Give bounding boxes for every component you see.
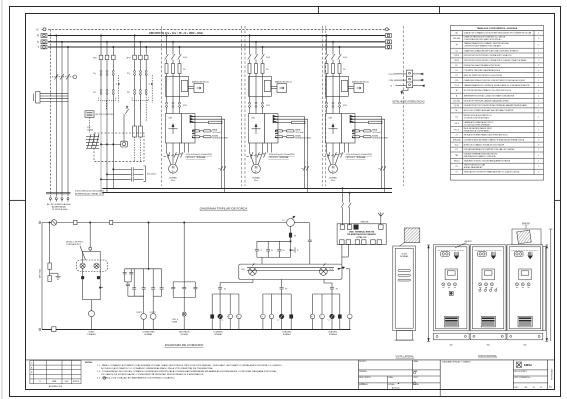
surge box TPS: [85, 111, 94, 118]
svg-text:1: 1: [538, 135, 539, 137]
format strip: [549, 386, 551, 389]
svg-text:DE FASE: DE FASE: [180, 333, 188, 336]
cabinet 3 front: [507, 245, 543, 331]
svg-text:1: 1: [538, 160, 539, 162]
svg-text:NO MODO AUTOMATICO O COMANDO S: NO MODO AUTOMATICO O COMANDO SERA REALIZ…: [101, 367, 213, 370]
table rows text: [453, 32, 540, 174]
svg-text:TM1: TM1: [455, 155, 459, 157]
control left riser: [41, 223, 43, 330]
telemetry drops: [342, 245, 348, 265]
main disconnect Q0: [52, 74, 77, 80]
svg-text:1: 1: [538, 155, 539, 157]
svg-text:CONTATOR AUXILIAR PARA COMANDO: CONTATOR AUXILIAR PARA COMANDO E SINALIZ…: [464, 138, 525, 141]
cabinet 2 extra buttons: [479, 288, 498, 292]
aux group labels: [93, 58, 131, 94]
notes title: [85, 361, 93, 364]
bus N left terminal: [42, 28, 47, 31]
voltmeter switch: [124, 106, 129, 141]
capacitor branch 3: [277, 241, 281, 257]
bus N: [48, 28, 385, 30]
aterro leader: [455, 243, 467, 248]
relay cluster riser: [148, 222, 149, 269]
detail input wires: [394, 74, 406, 86]
shared wall 1: [469, 246, 471, 331]
capacitor tap 1: [113, 167, 144, 171]
PLC feed contact B: [348, 192, 351, 225]
selector box with meter: [100, 141, 127, 147]
svg-text:NOTAS:: NOTAS:: [85, 361, 93, 364]
bus L1 right terminal: [386, 34, 392, 38]
lamp group 3 cap label: [311, 289, 338, 322]
bus L2: [48, 41, 385, 43]
bus L3 right terminal: [386, 45, 392, 49]
svg-text:0: 0: [321, 316, 322, 318]
svg-text:SIN1-3: SIN1-3: [454, 160, 459, 162]
aux contact label: [297, 250, 299, 252]
svg-text:0: 0: [31, 363, 32, 365]
svg-text:FUSIVEL NH 100A COM BASE E PRO: FUSIVEL NH 100A COM BASE E PROTECAO: [464, 64, 501, 67]
field tiny labels: [359, 360, 530, 386]
aux group B drops to resistors: [135, 94, 147, 126]
phase fault label: [173, 319, 179, 323]
motor branch M3: [324, 35, 389, 193]
svg-text:600: 600: [487, 345, 490, 347]
selector riser: [308, 223, 312, 265]
base rail 1: [433, 333, 469, 340]
surge indicator 1: [80, 263, 85, 268]
aux group A long drops: [101, 94, 113, 192]
svg-text:OS CABOS DE INTERLIGACAO COM A: OS CABOS DE INTERLIGACAO COM A REMOTA DE…: [101, 373, 204, 376]
capacitor branch 1: [255, 241, 259, 257]
svg-text:1/1: 1/1: [540, 387, 542, 389]
svg-text:1SS-3SS: 1SS-3SS: [453, 38, 461, 40]
base rail 2: [470, 333, 506, 340]
aterro label: [465, 240, 473, 243]
lamp group 3: [310, 279, 341, 329]
detail title: [393, 100, 425, 103]
svg-text:DIAGRAMA TRIFILAR DE FORCA: DIAGRAMA TRIFILAR DE FORCA: [200, 206, 249, 210]
svg-text:COMANDO: COMANDO: [87, 333, 97, 336]
svg-text:1DJ-3DJ: 1DJ-3DJ: [453, 100, 460, 102]
svg-text:(UTR) CLP: (UTR) CLP: [357, 237, 368, 239]
frontal right dimension A: [545, 245, 548, 342]
svg-text:DISJUNTOR MOTOR COM PROTECAO T: DISJUNTOR MOTOR COM PROTECAO TERMICA E M…: [464, 104, 527, 107]
title block top edge: [25, 359, 555, 361]
svg-text:REMOTA: REMOTA: [522, 222, 530, 225]
potential transformer TP1: [86, 134, 99, 149]
svg-text:1: 1: [538, 75, 539, 77]
frontal right dimension B: [549, 229, 552, 341]
svg-text:3: 3: [538, 70, 539, 72]
svg-text:CONT1: CONT1: [136, 312, 142, 314]
svg-text:LS1-3: LS1-3: [454, 123, 459, 125]
svg-text:PROJETO:: PROJETO:: [359, 361, 367, 363]
wire T tap: [67, 46, 68, 196]
svg-text:L3: L3: [328, 320, 330, 322]
spare lamp: [346, 269, 352, 329]
svg-text:MOTOR DE INDUCAO TRIFASICO 25c: MOTOR DE INDUCAO TRIFASICO 25cv 380VCA I…: [464, 89, 512, 92]
field divider 1: [357, 360, 359, 390]
svg-text:3: 3: [538, 100, 539, 102]
feeder cable label: [47, 191, 104, 207]
telemetry text: [347, 230, 376, 239]
svg-text:1.1 - PARA O COMANDO AUTOMATIC: 1.1 - PARA O COMANDO AUTOMATICO DAS BOMB…: [97, 364, 282, 367]
svg-text:2Q: 2Q: [127, 73, 130, 75]
bus N right terminal: [385, 28, 390, 31]
bus labels: [37, 27, 40, 49]
svg-text:3: 3: [538, 90, 539, 92]
svg-text:TRANSFORMADOR DE CORRENTE 100/: TRANSFORMADOR DE CORRENTE 100/5A CLASSE …: [464, 84, 530, 87]
svg-text:QUADRO DE COMANDO DOS MOTORES: QUADRO DE COMANDO DOS MOTORES 380VCA 60H…: [464, 32, 532, 35]
motor branch M2: [247, 35, 312, 193]
motor branch M1: [164, 35, 229, 193]
svg-text:1FU: 1FU: [93, 58, 98, 60]
svg-text:1: 1: [538, 129, 539, 131]
svg-text:ALTERACOES: ALTERACOES: [49, 385, 63, 388]
control supply breaker: [51, 220, 57, 226]
svg-text:R1: R1: [455, 116, 457, 118]
detail ground hook: [401, 88, 408, 94]
control bus lower: [102, 192, 392, 194]
field divider 3: [439, 360, 441, 397]
svg-text:1: 1: [538, 80, 539, 82]
capacitor bottom bar: [257, 257, 291, 264]
DJ fuse branch: [289, 226, 292, 241]
svg-text:ALETAS PARA FIACAO: ALETAS PARA FIACAO: [464, 166, 483, 169]
aux contact R: [290, 247, 295, 252]
svg-text:COM.: COM.: [389, 80, 394, 82]
svg-text:VENTILADOR COM FILTRO PARA EXA: VENTILADOR COM FILTRO PARA EXAUSTAO DO Q…: [464, 171, 520, 174]
lateral cabinet body: [393, 246, 416, 331]
field divider 4: [512, 360, 514, 390]
selector switch CS2: [320, 263, 328, 275]
revision table headers: [31, 363, 80, 383]
svg-text:1: 1: [538, 55, 539, 57]
control bus upper: [102, 188, 392, 190]
centering tick top left: [317, 7, 319, 14]
surge callout text: [66, 242, 84, 247]
ground: [56, 273, 61, 279]
DJ label: [282, 220, 284, 222]
surge module riser: [89, 222, 92, 250]
svg-text:N: N: [37, 27, 39, 31]
svg-text:CIRCUITO (3) 1Cv + 1Cv = 3F +: CIRCUITO (3) 1Cv + 1Cv = 3F + N + 380V +…: [149, 32, 204, 35]
aux group B contactor contacts: [134, 90, 147, 95]
svg-text:3: 3: [538, 38, 539, 40]
svg-text:3: 3: [538, 149, 539, 151]
capacitor group riser: [290, 241, 292, 257]
svg-text:3: 3: [538, 60, 539, 62]
svg-text:EMETRIA/TELECOMANDO COMPLETA: EMETRIA/TELECOMANDO COMPLETA: [464, 155, 497, 158]
trafo lamp: [88, 300, 94, 330]
capacitor feed bar: [257, 241, 291, 242]
resistor R1: [133, 126, 137, 137]
svg-text:COM BY-PASS INCORPORADO E PROT: COM BY-PASS INCORPORADO E PROTECAO: [464, 38, 502, 41]
field divider 2: [411, 360, 413, 390]
aux group A linkage: [99, 83, 120, 100]
TP1 label: [87, 127, 94, 132]
capacitor tap 3: [100, 177, 143, 181]
svg-text:CONTRA SURTO: CONTRA SURTO: [66, 243, 81, 246]
svg-text:1KM-3KM: 1KM-3KM: [453, 139, 461, 141]
lateral louvers: [398, 270, 411, 281]
svg-text:BOMBA 3: BOMBA 3: [329, 333, 337, 336]
aux group linkage dashes: [119, 75, 153, 103]
svg-text:CONTATOR TRIPOLAR 50A BOBINA 2: CONTATOR TRIPOLAR 50A BOBINA 220VCA: [464, 69, 501, 72]
interconnection detail: [389, 70, 425, 103]
telemetry unit: [337, 224, 386, 245]
svg-text:L2: L2: [278, 320, 280, 322]
bus L3: [48, 46, 385, 48]
remote box label: [522, 222, 530, 229]
parts list table: [451, 25, 544, 180]
aux loop contacts: [123, 269, 144, 296]
alimentacao label: [52, 206, 67, 212]
svg-text:BOMBAS: BOMBAS: [145, 333, 153, 336]
svg-text:VISTA LATERAL: VISTA LATERAL: [396, 355, 415, 358]
selector exit arrow: [338, 267, 345, 270]
centering tick right: [555, 199, 561, 201]
branch 1 header label: [149, 32, 204, 35]
aux group B phase drops: [134, 35, 147, 55]
svg-text:2FU: 2FU: [126, 58, 131, 60]
selector switch CS1: [249, 263, 257, 275]
telemetry label: [361, 220, 370, 223]
lateral view title: [396, 355, 415, 358]
detail output arrows: [413, 73, 425, 87]
svg-text:1: 1: [538, 166, 539, 168]
wire N tap: [49, 29, 51, 196]
lateral cabinet label: [400, 254, 409, 259]
frontal left dimension: [427, 245, 430, 342]
svg-text:C3: C3: [282, 250, 284, 252]
lamp group 1: [211, 279, 253, 329]
field rows left: [358, 370, 440, 390]
svg-text:RELE DE TEMPO ELETRONICO 0-30s: RELE DE TEMPO ELETRONICO 0-30s 220VCA: [464, 74, 503, 77]
control breaker DJ: [287, 216, 295, 226]
svg-text:1Q: 1Q: [93, 73, 96, 75]
logo: [516, 362, 521, 367]
DPS device 2: [48, 273, 58, 281]
svg-text:0: 0: [229, 316, 230, 318]
svg-text:DISPLAY/IHM PARA SOFT-STARTER: DISPLAY/IHM PARA SOFT-STARTER COM CABO D…: [464, 148, 515, 151]
svg-text:COM PROTECAO PRIMARIO E SECUND: COM PROTECAO PRIMARIO E SECUNDARIO: [464, 45, 502, 48]
svg-text:APROV.: APROV.: [73, 380, 80, 383]
svg-text:A.Paulo: A.Paulo: [391, 386, 400, 389]
relay cluster top bar: [125, 268, 162, 269]
wire S tap: [61, 41, 62, 196]
capacitor 3 label: [282, 250, 284, 252]
selector labels: [241, 269, 334, 271]
svg-text:1: 1: [538, 45, 539, 47]
rail terminal L: [39, 222, 41, 224]
cabinet width dims: [450, 345, 527, 347]
surge aux contact 3: [99, 287, 103, 289]
telemetry antenna: [378, 212, 384, 224]
phase fault relay riser: [184, 222, 185, 282]
svg-text:ALIMENTACAO: ALIMENTACAO: [52, 206, 67, 209]
DPS device 1: [48, 263, 51, 276]
svg-text:DISPOSITIVO DE PROTECAO CONTRA: DISPOSITIVO DE PROTECAO CONTRA SURTO 45k…: [464, 54, 513, 57]
svg-text:FT1-3: FT1-3: [454, 129, 459, 131]
aux group A breaker contacts: [100, 71, 114, 90]
incoming feeder terminals: [49, 198, 69, 202]
detail terminal strip: [406, 70, 412, 88]
svg-text:EMSA: EMSA: [524, 363, 532, 367]
note ground symbol: [103, 376, 106, 379]
svg-text:DISPOSITIVO DE PROTECAO CONTRA: DISPOSITIVO DE PROTECAO CONTRA SURTO CLA…: [464, 59, 527, 62]
aux group B linkage: [132, 83, 153, 100]
cabinet 2 front: [470, 245, 506, 331]
incoming plug connector: [34, 92, 69, 104]
remote antenna box: [512, 229, 541, 245]
control bottom rail: [42, 329, 351, 331]
svg-text:FASE: FASE: [173, 320, 178, 323]
svg-text:0: 0: [270, 316, 271, 318]
svg-text:S1-3: S1-3: [455, 144, 459, 146]
wire R tap: [56, 35, 57, 197]
svg-text:L1: L1: [222, 320, 224, 322]
centering tick left: [10, 199, 26, 201]
lineup side wall: [543, 247, 546, 331]
measurement dashed enclosure: [94, 133, 144, 161]
notes text: [97, 364, 282, 379]
capacitor branch 2: [266, 241, 270, 257]
svg-text:1.3 - SIMBOLO DE LIGACAO: 1.3 - SIMBOLO DE LIGACAO AO BARRAMENTO D…: [97, 377, 175, 380]
detail input labels: [389, 74, 395, 88]
svg-text:C1: C1: [260, 250, 262, 252]
feeder bus bar: [46, 192, 71, 194]
DPS branch riser: [49, 222, 50, 263]
svg-text:VISTO:: VISTO:: [413, 377, 418, 379]
svg-text:4x2,5mm2: 4x2,5mm2: [147, 174, 157, 176]
svg-text:DJ: DJ: [282, 220, 284, 222]
surge aux contact 2: [97, 276, 100, 279]
svg-text:ATERRO: ATERRO: [465, 240, 473, 243]
scale row: [515, 387, 543, 389]
svg-text:1: 1: [538, 96, 539, 98]
svg-text:6: 6: [538, 144, 539, 146]
bus L3 left terminal: [41, 45, 47, 49]
logo text: [524, 363, 532, 367]
revision table: [30, 361, 81, 384]
revision table caption: [49, 385, 63, 388]
cabinet 1 front: [433, 245, 469, 331]
svg-text:CHAVE SECCIONADORA TRIPOLAR 12: CHAVE SECCIONADORA TRIPOLAR 125A COM PUN…: [464, 49, 519, 52]
svg-text:SINALEIRO SONORO 220VCA PARA A: SINALEIRO SONORO 220VCA PARA ALARME DE F…: [464, 159, 511, 162]
svg-text:1: 1: [538, 50, 539, 52]
aux group A phase drops: [100, 35, 114, 55]
format strip rotated text: [551, 369, 554, 380]
svg-text:1.2 - TODA A FIACAO DE FORCA E: 1.2 - TODA A FIACAO DE FORCA E COMANDO D…: [97, 370, 277, 373]
svg-text:3: 3: [538, 85, 539, 87]
capacitor 1 label: [260, 250, 262, 252]
drawing number text: [442, 361, 471, 364]
frontal view title: [478, 355, 498, 358]
surge callout: [80, 246, 86, 260]
svg-text:REMOTA: REMOTA: [361, 220, 370, 223]
signature text: [391, 386, 400, 389]
capacitor bracket: [144, 166, 146, 181]
surge box label: [96, 113, 115, 116]
svg-text:9: 9: [538, 123, 539, 125]
PLC feed contact A: [341, 188, 344, 225]
cabinet 1 extra selector: [449, 291, 453, 295]
svg-text:600: 600: [523, 345, 526, 347]
svg-text:W 220VCA COM TERMOSTATO: W 220VCA COM TERMOSTATO: [464, 117, 490, 120]
centering tick top right: [439, 7, 441, 14]
aux group A fuses 1FU: [99, 55, 115, 70]
phase fault lamp: [182, 297, 186, 329]
surge box dashed drop: [89, 117, 91, 133]
svg-text:BL: BL: [456, 110, 458, 112]
svg-text:100VA: 100VA: [87, 129, 94, 132]
svg-text:BOMBA 2: BOMBA 2: [283, 333, 291, 336]
table header text: [477, 27, 518, 30]
svg-text:REGUA DE BORNES PARA CONDUTORE: REGUA DE BORNES PARA CONDUTORES ATE 6mm2: [464, 134, 508, 137]
aux group dashed stubs: [106, 101, 140, 111]
svg-text:ENCIA 380VCA COM RETARDO: ENCIA 380VCA COM RETARDO: [464, 129, 490, 132]
svg-text:S: S: [37, 40, 39, 44]
svg-text:RESP. TECNICO:: RESP. TECNICO:: [359, 377, 371, 379]
DPS rotated label: [39, 269, 42, 278]
svg-text:DPS 70kA: DPS 70kA: [39, 269, 42, 278]
svg-text:3: 3: [538, 105, 539, 107]
svg-text:3: 3: [538, 110, 539, 112]
bus L2 left terminal: [41, 40, 47, 44]
svg-text:CHAVE SELETORA 3 POSICOES COM: CHAVE SELETORA 3 POSICOES COM RETORNO PO…: [464, 79, 526, 82]
lamp group 2 cap label: [262, 289, 288, 322]
bus L1: [48, 35, 385, 37]
paper edge: [1, 0, 3, 399]
svg-text:1: 1: [538, 116, 539, 118]
rail terminal N: [39, 329, 41, 331]
phase fault relay block: [171, 282, 197, 298]
svg-text:3: 3: [538, 65, 539, 67]
aux group B fuses 2FU: [133, 55, 148, 70]
svg-text:TELEMETRIA/TELECOMANDO: TELEMETRIA/TELECOMANDO: [347, 233, 376, 236]
svg-text:ESC.: ESC.: [515, 387, 519, 389]
svg-text:K1: K1: [456, 70, 458, 72]
svg-text:ALIMENTACAO GERAL QCM: ALIMENTACAO GERAL QCM: [75, 193, 104, 196]
surge aux contact 1: [81, 276, 84, 279]
svg-text:DESENHO:: DESENHO:: [359, 371, 367, 373]
lateral hatched gland plate: [400, 228, 420, 246]
svg-text:DISJUNTOR TRIPOLAR CAIXA MOLDA: DISJUNTOR TRIPOLAR CAIXA MOLDADA 63A CUR…: [464, 99, 510, 102]
aux group A contactor contacts: [100, 90, 114, 95]
svg-text:C2: C2: [271, 250, 273, 252]
svg-text:600: 600: [450, 345, 453, 347]
field rows right: [513, 370, 547, 383]
svg-text:TABELA DE COMPONENTES / LEGEND: TABELA DE COMPONENTES / LEGENDA: [477, 27, 518, 30]
svg-text:D1: D1: [455, 149, 457, 151]
resistor R2: [138, 126, 142, 137]
shared wall 2: [506, 246, 508, 331]
svg-text:mm 220VCA CORES DIVERSAS: mm 220VCA CORES DIVERSAS: [464, 123, 491, 126]
svg-text:AL TPS CONTROLE: AL TPS CONTROLE: [96, 113, 115, 116]
lateral base: [395, 331, 415, 341]
contactor lamp branch 2: [150, 269, 163, 329]
svg-text:DES.: DES.: [65, 381, 69, 383]
lamp group 2: [261, 279, 293, 329]
svg-text:BOMBA 1: BOMBA 1: [215, 333, 223, 336]
svg-text:1Q-3Q: 1Q-3Q: [454, 105, 460, 107]
section title forca: [200, 206, 249, 210]
svg-text:AMPERIMETRO DIGITAL 0-100A COM: AMPERIMETRO DIGITAL 0-100A COM CHAVE COM…: [464, 95, 515, 98]
base rail 3: [507, 333, 543, 340]
control fuse F11: [110, 220, 113, 224]
control labels below rail: [87, 331, 339, 336]
